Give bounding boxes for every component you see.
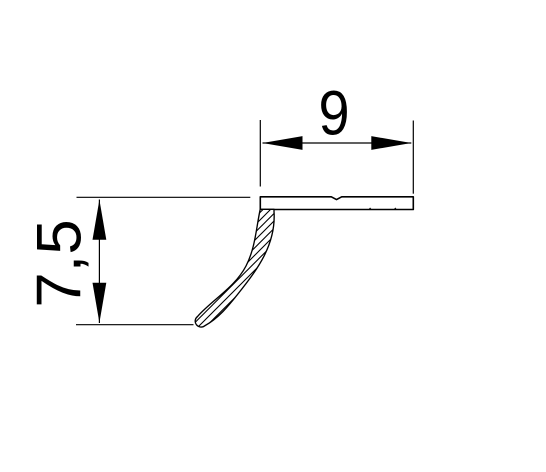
dimension 9: right extension line: [412, 121, 414, 194]
profile top bar (flat strip of seal profile): [260, 197, 413, 210]
dimension 7,5: top extension line: [77, 196, 251, 198]
dimension 7,5: dimension line: [98, 200, 100, 324]
dimension 7,5: bottom extension line: [76, 324, 194, 326]
tiny seam mark on bar bottom edge (left): [368, 208, 372, 210]
dimension 9: right arrowhead: [371, 136, 411, 150]
dimension 9: dimension line: [263, 142, 412, 144]
dimension 9: left extension line: [259, 120, 261, 187]
curved lip (hatched cross-section tail): [195, 209, 274, 327]
svg-text:7,5: 7,5: [24, 219, 94, 307]
svg-text:9: 9: [318, 77, 349, 148]
hatch fill of lip: [195, 209, 274, 327]
dimension 7,5: bottom arrowhead: [93, 283, 107, 323]
dimension 9: left arrowhead: [263, 136, 303, 150]
dimension 7,5: top arrowhead: [93, 200, 107, 240]
tiny seam mark on bar bottom edge (right): [393, 208, 397, 210]
dimension text 7,5: [24, 219, 94, 307]
